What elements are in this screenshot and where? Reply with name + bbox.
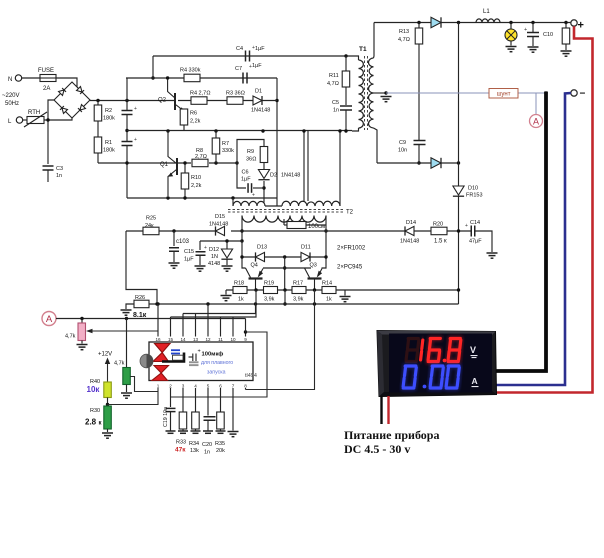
diode D12 (221, 249, 232, 259)
svg-text:11: 11 (218, 337, 223, 342)
transformer T1 core (365, 56, 368, 130)
junction R9 top (261, 129, 264, 132)
svg-text:4,7k: 4,7k (65, 334, 76, 340)
transformer T2 core (228, 210, 345, 213)
diode D15 (216, 226, 225, 235)
junction rect node bottom (457, 161, 460, 164)
svg-text:D10: D10 (468, 186, 478, 192)
svg-text:50Hz: 50Hz (5, 101, 19, 107)
wire bleeder bottom lead (565, 44, 567, 50)
svg-text:A: A (46, 314, 53, 325)
resistor R7 (212, 138, 220, 154)
wire pin8 down (245, 388, 247, 390)
junction T2 tap a (302, 129, 305, 132)
wire pin2 down (170, 388, 172, 407)
display red digits 16.8 (406, 339, 461, 363)
resistor R4 2.7 (191, 97, 207, 105)
svg-text:9: 9 (244, 337, 247, 342)
junction pin9 node (244, 330, 247, 333)
wire T1 secondary top (373, 23, 376, 59)
voltmeter module body (377, 331, 497, 397)
wire c103 bottom (173, 251, 175, 262)
svg-text:C5: C5 (332, 100, 339, 106)
svg-text:1n: 1n (333, 108, 339, 114)
op-amp U1 TL494 body (149, 342, 253, 381)
wire D15 to D14 (231, 230, 405, 232)
svg-text:16: 16 (155, 337, 161, 342)
wire cap2 bottom (126, 146, 128, 198)
wire D2 to T2 (263, 181, 265, 203)
junction T2 sec right y257 (324, 255, 327, 258)
wire R7 lower lead (215, 154, 217, 163)
wire R2 bottom (97, 121, 99, 137)
diode rectifier top (431, 17, 441, 27)
junction y304 pin16 (156, 302, 159, 305)
diode D11 (301, 252, 310, 261)
capacitor C-filter1 (122, 111, 133, 115)
junction D1 node (275, 99, 278, 102)
trimmer 4.7k pink (78, 323, 86, 341)
junction R17 R14 (313, 288, 316, 291)
wire base link (263, 267, 311, 269)
capacitor C9 (414, 141, 426, 145)
svg-text:4,7k: 4,7k (114, 361, 125, 367)
svg-text:R2: R2 (105, 108, 112, 114)
wire R40 to R30 (107, 398, 109, 407)
wire blue minus (496, 93, 571, 385)
grey knob (140, 354, 153, 368)
svg-text:R4 2,7Ω: R4 2,7Ω (190, 91, 210, 97)
pin numbers top (155, 337, 247, 342)
wire C6 loop (237, 140, 264, 189)
wire R26 left to ground (126, 304, 134, 309)
junction R7 bottom (214, 161, 217, 164)
svg-text:24к: 24к (145, 223, 154, 229)
capacitor C19 (166, 408, 176, 411)
svg-text:Q1: Q1 (160, 162, 169, 168)
wire node A line (56, 318, 246, 320)
wire lamp bottom lead (510, 41, 512, 46)
wire T2 left to Q4 (242, 241, 246, 268)
resistor 4.7k green (123, 368, 131, 385)
svg-text:Q4: Q4 (251, 263, 258, 269)
svg-text:запуска: запуска (207, 370, 226, 376)
wire divider to Q1 base (98, 162, 191, 164)
wire lower diode row (377, 162, 459, 164)
wire R25 to D15 (159, 230, 215, 232)
wire T2 right to Q3 (322, 225, 327, 268)
junction R13 top (417, 21, 420, 24)
svg-text:47к: 47к (175, 447, 186, 454)
svg-text:с103: с103 (176, 239, 190, 245)
svg-text:4,7Ω: 4,7Ω (327, 81, 339, 87)
junction y304 pin12 (206, 302, 209, 305)
terminal L (16, 117, 22, 123)
capacitor C-filter2 (122, 142, 133, 146)
wire R10 bottom (184, 189, 186, 198)
wire trimmer wiper (86, 329, 158, 334)
transistor Q2 (168, 79, 185, 112)
terminal N (15, 75, 21, 81)
svg-text:6: 6 (219, 384, 222, 389)
svg-text:A: A (533, 117, 539, 127)
svg-text:R11: R11 (329, 73, 339, 79)
svg-text:+: + (134, 137, 137, 143)
wire R11 top (345, 56, 347, 71)
svg-text:C3: C3 (56, 166, 63, 172)
svg-text:R35: R35 (215, 441, 225, 447)
junction D10 node y231 (457, 229, 460, 232)
transistor Q1 (168, 131, 177, 196)
red cross lower (152, 366, 169, 381)
svg-text:R18: R18 (234, 281, 244, 287)
svg-text:36Ω: 36Ω (246, 157, 256, 163)
svg-text:R9: R9 (247, 149, 254, 155)
wire T2 secondary right (325, 216, 327, 226)
bridge rectifier (54, 82, 90, 118)
resistor R14 (322, 287, 336, 294)
wire T1 primary top (352, 56, 359, 60)
wire y313 link (183, 304, 256, 314)
wire R25 elbow (126, 231, 157, 304)
junction C5 mid rail (344, 129, 347, 132)
wire T2 primary gap link (265, 205, 282, 207)
wire cap1 to cap2 (126, 115, 128, 141)
resistor R34 (192, 412, 200, 429)
junction R18 R19 (254, 288, 257, 291)
svg-text:5: 5 (207, 384, 210, 389)
svg-text:D15: D15 (215, 214, 225, 220)
wire shunt resistor lead (284, 224, 287, 226)
junction C6 right (262, 186, 265, 189)
transformer T1 primary winding (359, 60, 364, 128)
svg-text:C4: C4 (236, 46, 243, 52)
junction base link (283, 266, 286, 269)
resistor R19 (264, 287, 278, 294)
inductor L1 (476, 19, 500, 23)
resistor R8 (192, 159, 208, 167)
svg-text:шунт: шунт (497, 92, 511, 98)
wire resistor row y290 (226, 289, 459, 291)
svg-text:R30: R30 (90, 408, 100, 414)
svg-text:−: − (580, 89, 586, 100)
wire center tap down (284, 257, 286, 290)
wire T2 inner tap a (303, 131, 305, 201)
junction C9 bottom (417, 161, 420, 164)
svg-text:+12V: +12V (98, 352, 112, 358)
svg-text:R14: R14 (322, 281, 332, 287)
wire C15 bottom (199, 256, 201, 265)
resistor R26 (134, 300, 149, 308)
wire pin11 up (220, 317, 222, 337)
transformer T2 primary right (282, 201, 340, 206)
wire emitter rail y196 (127, 197, 277, 199)
wire pin3 down (182, 388, 184, 412)
wire C10 top lead (532, 23, 534, 33)
capacitor C3 (43, 166, 54, 170)
resistor R18 (233, 287, 247, 294)
junction row to feedback (457, 288, 460, 291)
wire T2 primary left end (232, 198, 234, 206)
svg-text:C10: C10 (543, 32, 553, 38)
ground pin7 (228, 432, 239, 437)
wire RTH to bridge (44, 118, 72, 120)
ground C10 (528, 47, 539, 52)
junction D12 tap (225, 239, 228, 242)
svg-text:FUSE: FUSE (38, 68, 54, 74)
svg-text:47µF: 47µF (469, 239, 482, 245)
svg-text:D14: D14 (406, 220, 416, 226)
svg-text:R1: R1 (105, 140, 112, 146)
wire Q4 base up (304, 267, 306, 269)
svg-text:к: к (99, 421, 102, 427)
wire R2 to R1 (97, 101, 99, 106)
wire bridge output rail (90, 100, 174, 102)
display blue digits 0.00 (403, 366, 459, 388)
wire green 4.7k bottom (126, 385, 128, 393)
svg-text:C14: C14 (470, 220, 480, 226)
junction C10 top (531, 21, 534, 24)
wire black shunt thick (496, 92, 546, 372)
svg-text:RTH: RTH (28, 110, 40, 116)
wire shunt line (386, 92, 546, 94)
diode D2 (258, 170, 269, 180)
svg-text:Q3: Q3 (310, 263, 317, 269)
wire pin8 to Q3 node (246, 290, 315, 390)
wire R9 to D2 (263, 163, 265, 170)
ground R26 (121, 310, 132, 315)
wire pin4 down (195, 388, 197, 412)
svg-text:100мкф: 100мкф (202, 351, 224, 358)
wire divider to pin1 (108, 388, 159, 405)
svg-text:~220V: ~220V (2, 93, 20, 99)
fuse FUSE 2A (40, 75, 56, 82)
junction R19 R17 (283, 288, 286, 291)
wire trimmer top lead (81, 319, 83, 324)
svg-text:4,7Ω: 4,7Ω (398, 37, 410, 43)
wire green 4.7k top (126, 319, 128, 368)
svg-text:12: 12 (205, 337, 211, 342)
svg-text:1N4148: 1N4148 (281, 173, 300, 179)
wire T2 right end (339, 131, 341, 206)
junction R10 base (183, 161, 186, 164)
svg-text:R10: R10 (191, 175, 201, 181)
svg-text:C9: C9 (399, 140, 406, 146)
resistor R1 (94, 137, 102, 153)
junction y304 a (283, 302, 286, 305)
svg-text:T1: T1 (359, 46, 367, 53)
wire R7 leads (215, 131, 217, 138)
wire C4 top rail (153, 55, 352, 57)
svg-text:10n: 10n (398, 148, 407, 154)
svg-text:1N4148: 1N4148 (251, 108, 270, 114)
svg-text:C19 10n: C19 10n (163, 407, 169, 427)
ground T1 mid tap (381, 97, 392, 102)
junction A trimmer (80, 317, 83, 320)
svg-text:1: 1 (157, 384, 160, 389)
component box inside IC (173, 355, 184, 360)
junction c103 tap (172, 229, 175, 232)
svg-text:R17: R17 (293, 281, 303, 287)
junction rect node top (457, 21, 460, 24)
wire main line y231 (126, 230, 143, 232)
wire R34 bottom (195, 429, 197, 431)
svg-text:180k: 180k (103, 148, 115, 154)
wire soft line y241 (200, 240, 242, 242)
junction T2 sec left y231 (240, 229, 243, 232)
wire R18 gnd hook (225, 290, 227, 295)
junction Q2 collector (166, 76, 169, 79)
svg-text:180k: 180k (103, 116, 115, 122)
svg-text:2,2k: 2,2k (190, 119, 201, 125)
svg-text:1µF: 1µF (252, 63, 262, 69)
ground rail bottom (166, 431, 226, 433)
wire trimmer bottom (81, 341, 83, 344)
wire y317 link (171, 290, 257, 317)
svg-text:3,9k: 3,9k (264, 297, 275, 303)
resistor bleeder (562, 28, 570, 44)
junction mid rail x127 (125, 129, 128, 132)
wire T2 secondary center tap (283, 219, 285, 225)
ground R30 (102, 433, 113, 438)
diode D10 (453, 186, 464, 196)
resistor R20 (431, 227, 447, 235)
svg-text:2.8: 2.8 (85, 418, 97, 427)
wire module power black (380, 396, 382, 424)
svg-text:C20: C20 (202, 442, 212, 448)
junction T2 right mid rail (338, 129, 341, 132)
svg-text:Q2: Q2 (158, 98, 167, 104)
transformer T2 primary left (233, 201, 265, 206)
wire N to fuse (22, 77, 40, 79)
wire C15 branch (199, 241, 201, 250)
svg-text:2A: 2A (43, 86, 50, 92)
resistor R30 green (104, 406, 112, 429)
ground bleeder (561, 51, 572, 56)
wire R20 to C14 (447, 230, 471, 232)
svg-text:R7: R7 (222, 141, 229, 147)
wire R13 to C9 (418, 44, 420, 140)
wire D12 bottom (226, 260, 228, 266)
resistor R40 yellow (104, 382, 112, 398)
wire R6 bottom (183, 125, 185, 131)
diode D14 (405, 226, 414, 235)
svg-text:14: 14 (180, 337, 186, 342)
wire R14 gnd hook (344, 290, 346, 296)
wire fuse to bridge (56, 78, 77, 87)
wire module power red (387, 396, 389, 424)
ground R14 (340, 297, 351, 302)
resistor R33 (179, 412, 187, 429)
junction R7 top (214, 129, 217, 132)
supply arrow +12V (105, 358, 110, 383)
capacitor C7 (243, 73, 247, 84)
svg-text:1µF: 1µF (255, 46, 265, 52)
svg-text:+: + (198, 349, 201, 355)
capacitor C15 (196, 252, 206, 256)
wire x277 link (276, 78, 278, 206)
transistor Q3 (305, 268, 323, 290)
resistor R13 (415, 28, 423, 44)
junction T2 sec left y241 (240, 239, 243, 242)
label V on module (470, 345, 478, 358)
transformer T2 secondary winding (242, 216, 326, 223)
junction lamp top (509, 21, 512, 24)
capacitor blue inside IC (171, 349, 180, 354)
svg-text:R13: R13 (399, 29, 409, 35)
svg-text:C6: C6 (242, 170, 249, 176)
svg-text:R3 36Ω: R3 36Ω (226, 91, 245, 97)
wire mid rail (127, 130, 352, 132)
svg-text:13: 13 (193, 337, 199, 342)
ammeter symbol A right (530, 115, 543, 128)
junction A green (125, 317, 128, 320)
svg-text:R19: R19 (264, 281, 274, 287)
ground C15 (195, 266, 206, 271)
svg-text:2,2k: 2,2k (191, 183, 202, 189)
wire pin6 down (220, 388, 222, 412)
svg-text:+: + (465, 223, 468, 229)
svg-text:1.5 к: 1.5 к (434, 239, 447, 245)
resistor shunt 100cm (287, 222, 306, 229)
capacitor C20 (204, 417, 216, 421)
wire R30 bottom (107, 429, 109, 432)
diode rectifier bottom (431, 158, 441, 168)
svg-text:R34: R34 (189, 441, 199, 447)
svg-text:20k: 20k (216, 448, 225, 454)
wire driver row y100 (178, 100, 277, 102)
svg-text:C7: C7 (235, 66, 242, 72)
wire R1 bottom (97, 153, 99, 163)
svg-text:Питание прибора: Питание прибора (344, 428, 439, 442)
junction y304 c (313, 302, 316, 305)
resistor R9 (260, 147, 268, 163)
junction R26 node (155, 302, 158, 305)
diode D13 (256, 252, 265, 261)
ground C14 (487, 253, 498, 258)
wire D12 branch (226, 241, 228, 249)
svg-text:D12: D12 (209, 247, 219, 253)
svg-text:3,9k: 3,9k (293, 297, 304, 303)
svg-text:1N4148: 1N4148 (209, 222, 228, 228)
svg-text:3: 3 (182, 384, 185, 389)
wire T1 secondary bottom (374, 128, 378, 163)
resistor R35 (217, 412, 225, 429)
junction divider tap (125, 161, 128, 164)
wire C20 bottom (207, 421, 209, 431)
capacitor C14 (471, 226, 475, 237)
svg-text:+: + (134, 106, 137, 112)
svg-text:D2: D2 (270, 173, 277, 179)
wire C3 lower lead (47, 170, 49, 182)
wire pin9 loop (171, 332, 268, 397)
wire R10 top (184, 163, 186, 173)
svg-text:1k: 1k (238, 297, 244, 303)
wire red plus (496, 26, 593, 392)
svg-text:7: 7 (232, 384, 235, 389)
junction y196 R10 (183, 196, 186, 199)
svg-text:для плавного: для плавного (201, 360, 233, 366)
wire T2 inner tap b (307, 131, 309, 201)
transformer T1 secondary winding (369, 58, 374, 128)
svg-text:2,7Ω: 2,7Ω (195, 154, 207, 160)
wire cap chain (126, 78, 128, 110)
junction diode row center (283, 255, 286, 258)
svg-text:R20: R20 (433, 222, 443, 228)
wire x153 vertical (152, 56, 154, 78)
wire pin5 down (207, 388, 209, 416)
svg-text:8: 8 (244, 384, 247, 389)
